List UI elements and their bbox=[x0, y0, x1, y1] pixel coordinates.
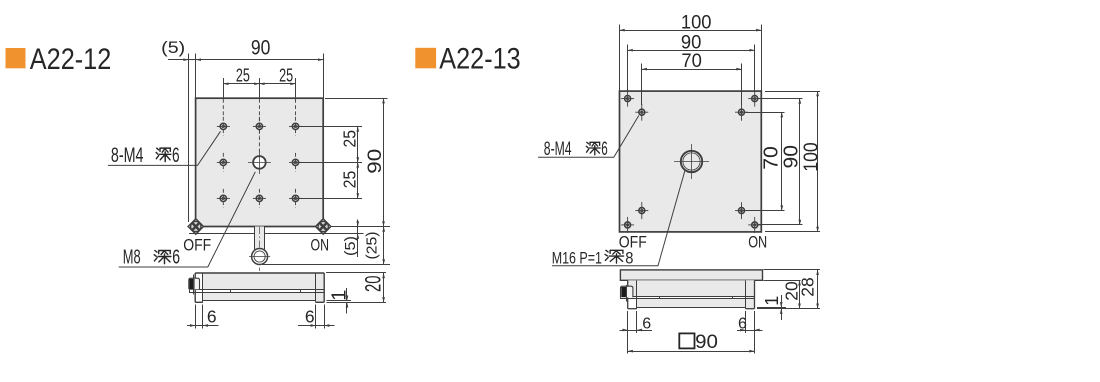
knob shaft bbox=[254, 227, 265, 250]
magnet bottom bbox=[203, 300, 316, 302]
svg-text:A22-13: A22-13 bbox=[439, 43, 520, 76]
knob circle M8 bbox=[249, 249, 270, 265]
dim line 100 top bbox=[620, 30, 762, 32]
svg-text:20: 20 bbox=[361, 276, 386, 293]
svg-text:70: 70 bbox=[681, 50, 702, 72]
switch lever right bbox=[621, 286, 633, 297]
ext inner hole row1 bbox=[746, 112, 785, 114]
svg-text:6: 6 bbox=[305, 307, 315, 327]
ext foot R inner right bbox=[745, 311, 747, 333]
ext line plate left bbox=[195, 54, 197, 99]
dim line 6 left bbox=[187, 325, 219, 327]
ext feet bottom bbox=[326, 302, 386, 304]
dim line 1 lower bbox=[346, 302, 348, 313]
svg-text:25: 25 bbox=[279, 66, 293, 86]
ext plate left bbox=[619, 25, 621, 92]
centerline col1 bbox=[222, 99, 224, 117]
ext plate right bbox=[761, 25, 763, 92]
dim line 90 right bbox=[383, 98, 385, 226]
dim line 25/25 right bbox=[357, 126, 359, 198]
center hole M16 bbox=[674, 144, 709, 179]
ext foot L inner bbox=[202, 305, 204, 329]
title marker A22-12 bbox=[6, 48, 26, 68]
dim line 100 right bbox=[817, 91, 819, 232]
corner hole M4 bbox=[748, 91, 761, 107]
lever centerline right bbox=[626, 285, 628, 301]
dim line 6 right right-draw bbox=[737, 330, 763, 332]
ext body top bbox=[763, 280, 800, 282]
svg-text:(5): (5) bbox=[342, 236, 359, 256]
svg-text:90: 90 bbox=[695, 331, 718, 353]
ext foot L outer right bbox=[627, 311, 629, 354]
svg-text:6: 6 bbox=[601, 139, 608, 160]
inner hole M4 bbox=[735, 104, 748, 121]
side view body fills bbox=[203, 273, 316, 289]
ext line knob bottom bbox=[262, 264, 390, 266]
ext corner hole col R bbox=[754, 45, 756, 93]
ext line plate right bbox=[323, 54, 325, 99]
svg-text:90: 90 bbox=[780, 145, 802, 169]
side view top plate bbox=[620, 270, 762, 280]
svg-text:6: 6 bbox=[738, 316, 747, 333]
svg-text:100: 100 bbox=[801, 142, 823, 172]
dim line 20 right bbox=[799, 280, 801, 308]
dim line (25) right bbox=[383, 227, 385, 265]
svg-text:25: 25 bbox=[236, 66, 250, 86]
ext plate top right bbox=[765, 91, 820, 93]
svg-text:ON: ON bbox=[748, 233, 767, 252]
svg-text:90: 90 bbox=[365, 149, 386, 174]
band tick bbox=[659, 297, 661, 299]
ext line hole col2 bbox=[259, 78, 261, 98]
side view outline bbox=[627, 280, 629, 308]
dim line 6 right bbox=[298, 325, 335, 327]
dim line 70 top bbox=[642, 69, 742, 71]
ext line hole row3 bbox=[299, 198, 362, 200]
svg-text:M8: M8 bbox=[123, 245, 141, 268]
base plate band right bbox=[621, 296, 755, 298]
ext foot R outer right bbox=[754, 311, 756, 354]
side view outline bbox=[195, 272, 324, 274]
svg-text:OFF: OFF bbox=[183, 236, 211, 255]
svg-text:6: 6 bbox=[207, 307, 217, 327]
side view body fills bbox=[628, 280, 755, 296]
ext foot R inner bbox=[315, 305, 317, 329]
ext plate bottom right bbox=[765, 231, 820, 233]
ext top of side view bbox=[326, 272, 386, 274]
clamp screw diamond right bbox=[316, 219, 331, 234]
dim line 20 bbox=[383, 273, 385, 302]
tapped hole M4 r1c3 bbox=[289, 117, 302, 136]
svg-text:25: 25 bbox=[339, 130, 359, 148]
ext line plate top right bbox=[325, 98, 388, 100]
switch lever bbox=[189, 278, 200, 289]
dim line (5) right bbox=[357, 219, 359, 256]
svg-text:25: 25 bbox=[339, 171, 359, 189]
svg-text:6: 6 bbox=[642, 316, 651, 333]
ext line hole row2 bbox=[299, 162, 362, 164]
svg-text:1: 1 bbox=[328, 290, 350, 301]
centerline col2 bbox=[258, 99, 260, 152]
ext foot L outer bbox=[195, 305, 197, 329]
svg-text:(25): (25) bbox=[364, 232, 381, 260]
ext foot L inner right bbox=[636, 311, 638, 333]
tapped hole M4 r3c3 bbox=[289, 189, 302, 208]
band tick bbox=[732, 297, 734, 299]
tapped hole M4 r3c2 bbox=[253, 189, 266, 208]
svg-text:6: 6 bbox=[172, 144, 180, 167]
svg-text:90: 90 bbox=[251, 36, 271, 59]
leader M8 bbox=[119, 172, 256, 267]
dim line square-90 bbox=[628, 351, 755, 353]
tapped hole M4 r2c1 bbox=[217, 153, 230, 172]
centerline col3 bbox=[295, 99, 297, 117]
dim line 1 lower right bbox=[781, 309, 783, 320]
leader M16 bbox=[552, 170, 685, 265]
base plate band bbox=[189, 289, 324, 291]
plate 90x90 top view bbox=[196, 98, 324, 226]
corner hole M4 bbox=[621, 217, 634, 233]
title marker A22-13 bbox=[415, 48, 436, 69]
ext corner hole row2 bbox=[759, 224, 803, 226]
tapped hole M4 r1c1 bbox=[217, 117, 230, 136]
ext feet bottom right bbox=[757, 308, 820, 310]
ext inner hole col L bbox=[641, 64, 643, 106]
corner hole M4 bbox=[621, 91, 634, 107]
center hole M8 bbox=[248, 151, 271, 174]
dim line 28 right bbox=[817, 270, 819, 309]
magnet bottom right bbox=[637, 307, 745, 309]
dim text square 90 bbox=[679, 333, 694, 348]
ext line hole row1 bbox=[299, 126, 362, 128]
plate 100x100 top view bbox=[620, 91, 762, 232]
band tick bbox=[230, 289, 232, 292]
ext line hole col3 bbox=[295, 78, 297, 98]
dim line 90 right bbox=[799, 99, 801, 225]
tapped hole M4 r1c2 bbox=[253, 117, 266, 136]
dim line 1 upper right bbox=[781, 295, 783, 307]
svg-text:8: 8 bbox=[625, 248, 633, 267]
tapped hole M4 r2c3 bbox=[289, 153, 302, 172]
ext magnet bottom right bbox=[757, 307, 786, 309]
ext foot R outer bbox=[324, 305, 326, 329]
dim line (5)/90 top bbox=[168, 59, 323, 61]
svg-text:M16 P=1: M16 P=1 bbox=[552, 248, 602, 267]
tapped hole M4 r3c1 bbox=[217, 189, 230, 208]
shaft centerline bbox=[258, 227, 260, 271]
ext corner hole row1 bbox=[759, 98, 803, 100]
feet bottom right bbox=[628, 308, 637, 310]
svg-text:8-M4: 8-M4 bbox=[544, 139, 572, 160]
svg-text:28: 28 bbox=[797, 277, 817, 297]
ext inner hole row2 bbox=[746, 210, 785, 212]
ext line diamond left vertex bbox=[188, 54, 190, 223]
dim line 25/25 top bbox=[223, 83, 295, 85]
dim line 1 upper bbox=[346, 288, 348, 301]
dim line 70 right bbox=[781, 112, 783, 210]
ext line base edge right bbox=[327, 233, 364, 235]
lever centerline bbox=[193, 275, 195, 295]
corner hole M4 bbox=[748, 217, 761, 233]
clamp screw diamond left bbox=[188, 219, 203, 234]
base plate edge below plate bbox=[189, 233, 330, 235]
svg-text:8-M4: 8-M4 bbox=[111, 144, 144, 167]
svg-text:1: 1 bbox=[762, 296, 782, 306]
leader 8-M4 right bbox=[538, 116, 639, 158]
svg-text:ON: ON bbox=[311, 236, 330, 255]
dim line 6 left right-draw bbox=[620, 330, 653, 332]
svg-text:70: 70 bbox=[761, 146, 783, 170]
inner hole M4 bbox=[635, 202, 648, 219]
ext inner hole col R bbox=[741, 64, 743, 106]
ext line plate bottom right bbox=[325, 226, 390, 228]
svg-text:(5): (5) bbox=[161, 38, 185, 57]
band tick bbox=[300, 289, 302, 292]
svg-text:6: 6 bbox=[172, 245, 180, 268]
ext corner hole col L bbox=[627, 45, 629, 93]
svg-text:100: 100 bbox=[681, 12, 712, 34]
dim line 90 top bbox=[628, 50, 755, 52]
ext line hole col1 bbox=[223, 78, 225, 98]
ext magnet bottom bbox=[326, 300, 351, 302]
inner hole M4 bbox=[635, 104, 648, 121]
leader 8-M4 bbox=[108, 131, 221, 165]
feet bottom bbox=[195, 301, 203, 303]
ext top plate top bbox=[763, 269, 820, 271]
inner hole M4 bbox=[735, 202, 748, 219]
svg-text:A22-12: A22-12 bbox=[30, 43, 112, 76]
